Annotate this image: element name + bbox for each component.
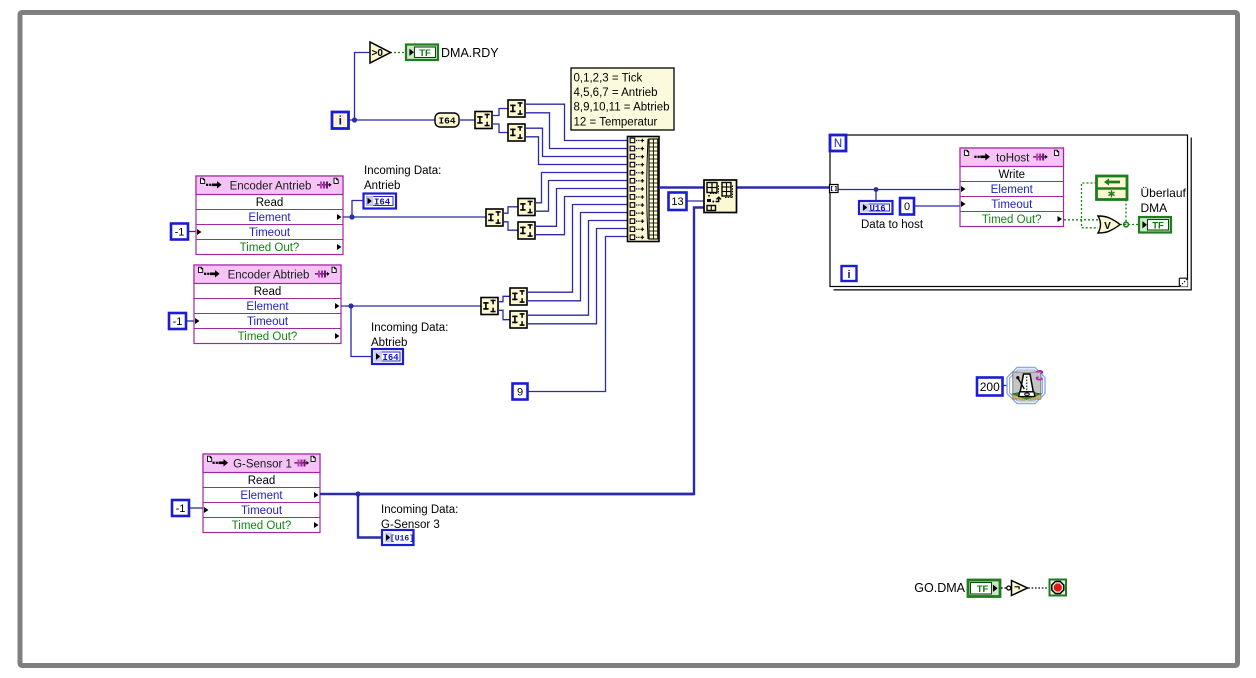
svg-text:Timeout: Timeout	[991, 199, 1033, 211]
svg-text:V: V	[1104, 221, 1111, 232]
svg-text:DMA.RDY: DMA.RDY	[441, 46, 499, 60]
svg-text:i: i	[847, 269, 850, 281]
svg-text:Encoder Abtrieb: Encoder Abtrieb	[228, 270, 310, 282]
svg-text:TF: TF	[419, 48, 431, 59]
svg-text:DMA: DMA	[1141, 201, 1168, 215]
svg-text:Element: Element	[246, 301, 289, 313]
svg-text:12 = Temperatur: 12 = Temperatur	[574, 116, 658, 128]
svg-text:Element: Element	[240, 490, 283, 502]
svg-text:4,5,6,7 = Antrieb: 4,5,6,7 = Antrieb	[574, 87, 658, 99]
svg-text:13: 13	[671, 196, 683, 208]
svg-text:I64: I64	[438, 116, 455, 127]
svg-text:Timed Out?: Timed Out?	[238, 331, 298, 343]
svg-text:>0: >0	[372, 48, 384, 59]
svg-text:Incoming Data:: Incoming Data:	[381, 504, 458, 516]
svg-text:-1: -1	[176, 503, 186, 515]
svg-text:Timeout: Timeout	[247, 316, 289, 328]
svg-text:Read: Read	[254, 286, 282, 298]
svg-text:I64: I64	[374, 197, 391, 207]
svg-text:[U16]: [U16]	[390, 535, 414, 544]
svg-text:Timed Out?: Timed Out?	[232, 520, 292, 532]
svg-text:Element: Element	[248, 212, 291, 224]
svg-text:I64: I64	[383, 353, 400, 363]
svg-text:-1: -1	[175, 226, 185, 238]
svg-text:Encoder Antrieb: Encoder Antrieb	[230, 181, 312, 193]
svg-text:Überlauf: Überlauf	[1141, 186, 1187, 200]
svg-text:Timeout: Timeout	[241, 505, 283, 517]
svg-text:TF: TF	[1152, 220, 1164, 231]
svg-text:9: 9	[517, 386, 523, 398]
svg-text:G-Sensor 1: G-Sensor 1	[233, 459, 292, 471]
svg-text:Timed Out?: Timed Out?	[982, 214, 1042, 226]
svg-text:Incoming Data:: Incoming Data:	[364, 165, 441, 177]
svg-text:0: 0	[904, 201, 910, 213]
svg-text:0,1,2,3 = Tick: 0,1,2,3 = Tick	[574, 73, 643, 85]
svg-text:N: N	[834, 138, 842, 150]
svg-text:Read: Read	[256, 197, 284, 209]
svg-text:Abtrieb: Abtrieb	[371, 337, 407, 349]
svg-text:-1: -1	[173, 316, 183, 328]
svg-text:GO.DMA: GO.DMA	[914, 581, 965, 595]
svg-text:Read: Read	[248, 475, 276, 487]
svg-text:Write: Write	[998, 169, 1025, 181]
svg-text:U16: U16	[870, 204, 886, 214]
svg-text:8,9,10,11 = Abtrieb: 8,9,10,11 = Abtrieb	[574, 102, 670, 114]
svg-text:TF: TF	[977, 584, 989, 595]
svg-text:Timed Out?: Timed Out?	[240, 242, 300, 254]
svg-text:200: 200	[980, 380, 1000, 394]
svg-text:Timeout: Timeout	[249, 227, 291, 239]
svg-text:Antrieb: Antrieb	[364, 180, 400, 192]
svg-text:toHost: toHost	[996, 153, 1030, 165]
svg-text:Data to host: Data to host	[861, 219, 924, 231]
svg-text:Incoming Data:: Incoming Data:	[371, 322, 448, 334]
svg-text:Element: Element	[991, 184, 1034, 196]
svg-text:i: i	[339, 113, 342, 127]
